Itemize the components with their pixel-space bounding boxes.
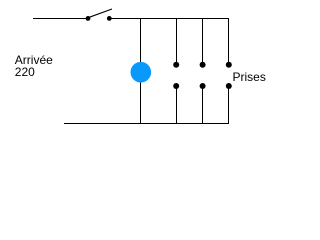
wire: top bus right segment after switch: [111, 18, 230, 20]
prise 2 lower pin dot: [200, 83, 206, 89]
wire: top bus left segment (mains L in): [33, 18, 87, 20]
wire: prise 2 lower riser: [202, 89, 204, 125]
label: Arrivée 220 (mains input): [15, 54, 53, 79]
wire: bottom bus (neutral return): [64, 123, 229, 125]
prise 1 lower pin dot: [173, 83, 179, 89]
wire: prise 2 upper drop: [202, 18, 204, 63]
wire: prise 3 lower riser: [228, 89, 230, 125]
wire: prise 1 lower riser: [176, 89, 178, 125]
prise 2 upper pin dot: [200, 62, 206, 68]
switch S1 left contact: [86, 16, 91, 21]
switch S1 lever (open blade): [90, 9, 113, 17]
prise 3 upper pin dot: [226, 62, 232, 68]
switch S1 right contact: [107, 16, 112, 21]
label: Prises (outlets): [233, 71, 266, 83]
prise 1 upper pin dot: [173, 62, 179, 68]
prise 3 lower pin dot: [226, 83, 232, 89]
wire: lamp branch vertical at x=140: [140, 18, 142, 124]
wire: prise 3 upper drop: [228, 18, 230, 63]
lamp L1 (blue bulb): [131, 62, 152, 83]
wire: prise 1 upper drop: [176, 18, 178, 63]
